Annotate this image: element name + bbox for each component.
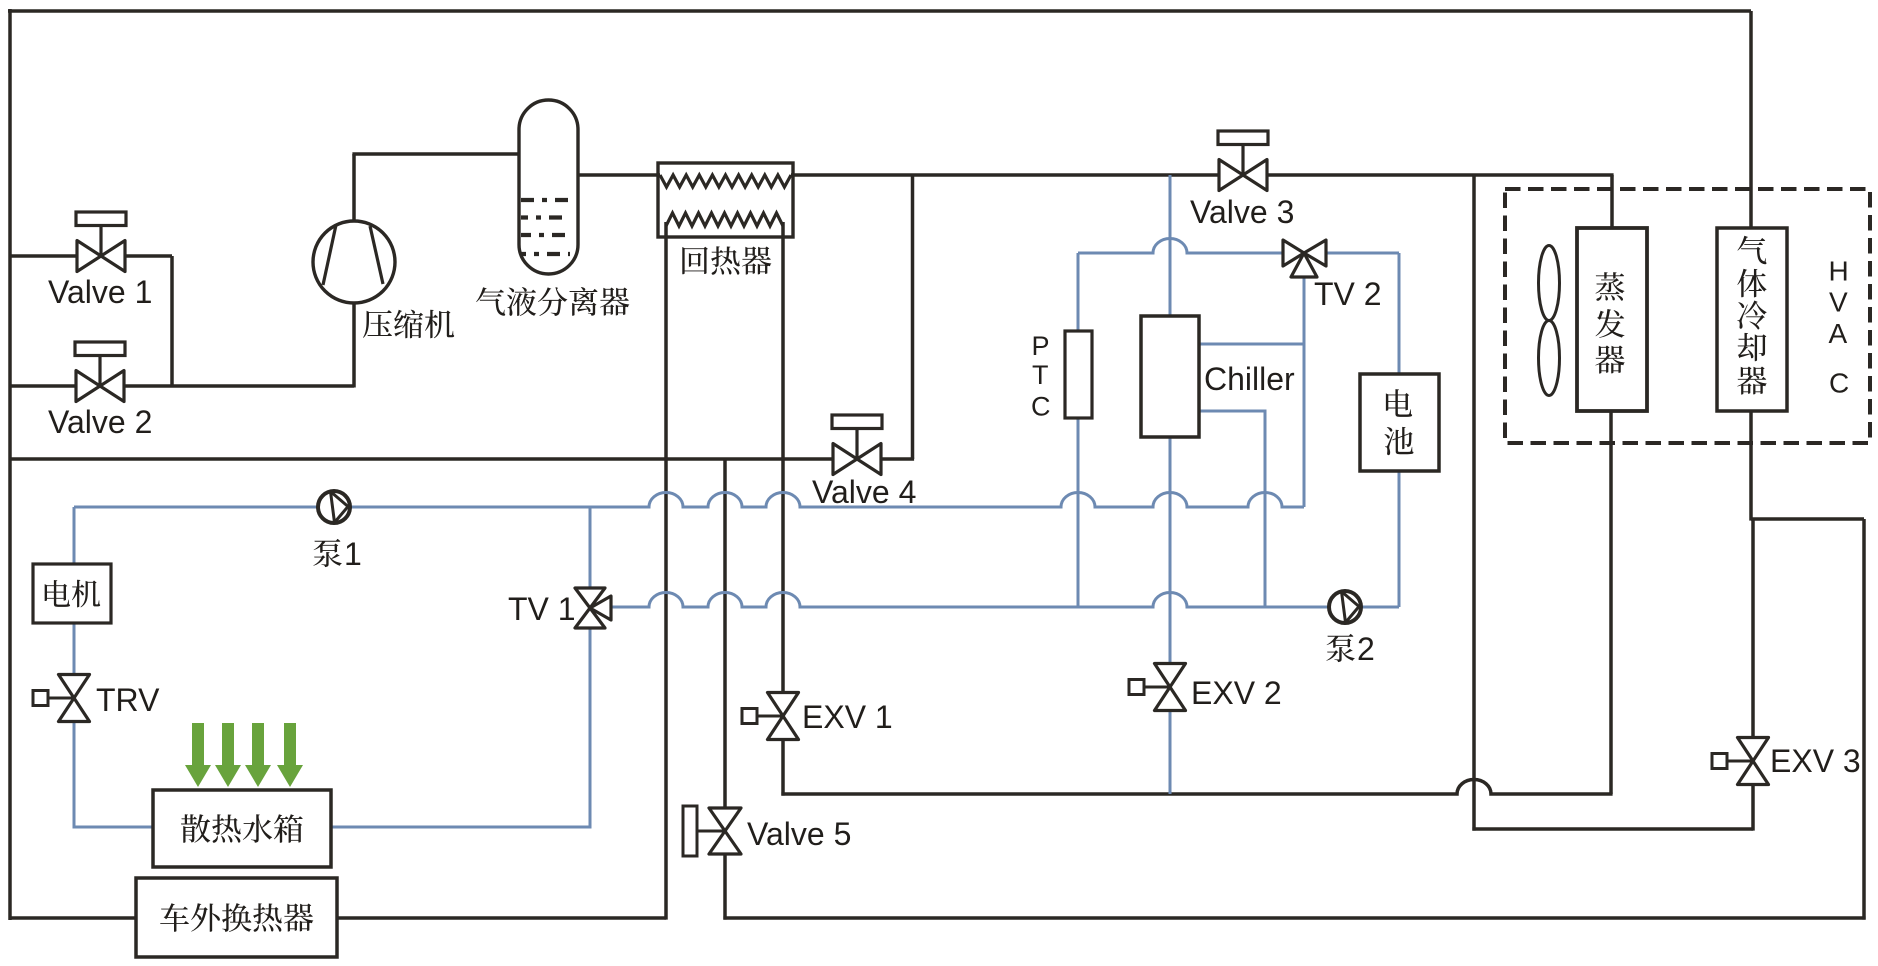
wire tank to TV1 riser xyxy=(331,507,590,827)
svg-text:H: H xyxy=(1829,256,1849,287)
svg-text:TV 1: TV 1 xyxy=(508,591,576,627)
svg-text:EXV 2: EXV 2 xyxy=(1191,675,1282,711)
radiator tank box xyxy=(153,790,331,867)
svg-text:EXV 3: EXV 3 xyxy=(1770,743,1861,779)
valve TRV xyxy=(48,697,74,700)
wire motor top stem xyxy=(73,507,76,565)
valve EXV 3 xyxy=(1727,760,1753,763)
label 泵2 xyxy=(1326,634,1354,662)
label 泵1 xyxy=(313,539,341,567)
HVAC fan blade top xyxy=(1539,246,1560,321)
wire battery outlet stem xyxy=(1398,470,1401,607)
svg-text:Valve 4: Valve 4 xyxy=(812,474,916,510)
svg-text:T: T xyxy=(1032,360,1049,390)
wire gas-cooler to right border xyxy=(1751,517,1864,521)
wire right border xyxy=(1862,519,1866,920)
svg-text:Valve 5: Valve 5 xyxy=(747,816,851,852)
wire chiller top stem xyxy=(1169,175,1172,317)
wire valve1 branch xyxy=(10,254,172,258)
HVAC dashed enclosure xyxy=(1505,189,1870,443)
wire PTC bottom stem xyxy=(1077,417,1080,607)
pump 泵2 xyxy=(1329,591,1361,623)
green heat arrows into radiator tank xyxy=(185,723,211,787)
wire valve1-valve2 link xyxy=(170,256,174,386)
wire recuperator left leg xyxy=(664,222,668,920)
chiller box xyxy=(1141,316,1199,437)
evaporator box xyxy=(1577,228,1647,411)
svg-text:V: V xyxy=(1829,287,1848,318)
wire EXV3 stem xyxy=(1751,519,1755,831)
svg-text:P: P xyxy=(1032,331,1050,361)
recuperator coil 1 xyxy=(660,175,791,187)
wire chiller right port 1 xyxy=(1199,343,1304,346)
svg-text:2: 2 xyxy=(1357,631,1375,667)
label 蒸发器 vertical xyxy=(1596,272,1625,301)
wire valve4 line xyxy=(10,457,914,461)
wire compressor discharge xyxy=(352,154,356,222)
valve Valve 1 xyxy=(76,212,126,226)
label 电机 xyxy=(45,580,70,607)
svg-text:Valve 3: Valve 3 xyxy=(1190,194,1294,230)
label 车外换热器 xyxy=(160,903,189,932)
wire HVAC return riser xyxy=(1472,175,1476,831)
svg-text:EXV 1: EXV 1 xyxy=(802,699,893,735)
wire EXV1 outlet line xyxy=(781,780,1612,795)
label 气体冷却器 vertical xyxy=(1737,236,1766,265)
valve Valve 2 xyxy=(75,342,125,356)
wire blue coolant line 1 (pump1 line) xyxy=(74,493,1304,507)
label 压缩机 xyxy=(363,310,392,338)
label 气液分离器 xyxy=(476,287,505,316)
PTC heater box xyxy=(1065,331,1092,418)
wire PTC top stem xyxy=(1077,253,1080,332)
wire battery inlet stem xyxy=(1398,253,1401,375)
svg-text:C: C xyxy=(1829,368,1849,399)
gas cooler box xyxy=(1717,228,1787,411)
wire recuperator bypass riser xyxy=(911,175,915,459)
wire gas-cooler top stem xyxy=(1749,11,1753,229)
wire separator-recuperator xyxy=(578,173,660,177)
wire evaporator inlet stem xyxy=(1610,175,1614,229)
HVAC fan blade bottom xyxy=(1539,321,1560,396)
wire bottom left line xyxy=(10,916,666,920)
valve Valve 4 xyxy=(832,415,882,429)
recuperator coil 2 xyxy=(666,213,783,226)
wire top border xyxy=(8,9,1751,13)
wire left border xyxy=(8,9,12,920)
wire gas-cooler outlet stem xyxy=(1749,411,1753,521)
battery box xyxy=(1360,374,1439,471)
wire evaporator outlet stem xyxy=(1609,411,1613,794)
motor box xyxy=(33,564,111,623)
pump 泵1 xyxy=(318,491,350,523)
wire compressor-separator xyxy=(352,152,519,156)
svg-text:Valve 1: Valve 1 xyxy=(48,274,152,310)
svg-text:C: C xyxy=(1031,392,1051,422)
svg-text:TV 2: TV 2 xyxy=(1314,276,1382,312)
wire bottom right line xyxy=(723,916,1865,920)
wire recuperator right leg / EXV1 leg xyxy=(781,222,785,796)
wire main top line xyxy=(791,173,1614,177)
wire TV2 stem xyxy=(1303,266,1306,507)
wire valve5 leg xyxy=(723,459,727,920)
wire blue coolant line 2 (TV1 branch) xyxy=(601,593,1399,608)
svg-text:Chiller: Chiller xyxy=(1204,361,1295,397)
external heat exchanger box xyxy=(136,878,337,957)
valve EXV 1 xyxy=(757,715,783,718)
valve TV 2 (3-way) xyxy=(1283,240,1304,266)
label 回热器 xyxy=(682,247,708,275)
valve EXV 2 xyxy=(1144,686,1170,689)
wire chiller right port 2 xyxy=(1199,411,1265,607)
svg-text:Valve 2: Valve 2 xyxy=(48,404,152,440)
wire compressor suction xyxy=(352,303,356,388)
label 散热水箱 xyxy=(181,814,210,843)
wire EXV3 bottom line xyxy=(1472,827,1753,831)
svg-text:1: 1 xyxy=(344,536,362,572)
wire chiller bottom stem / EXV2 leg xyxy=(1169,436,1172,794)
wire valve2 branch xyxy=(10,384,354,388)
label 电池 vertical xyxy=(1386,389,1412,417)
svg-text:TRV: TRV xyxy=(96,682,160,718)
valve TV 1 (3-way) xyxy=(575,588,605,608)
wire PTC-TV2-battery line xyxy=(1078,239,1399,253)
recuperator heat exchanger box xyxy=(658,163,793,237)
gas-liquid separator xyxy=(519,100,578,274)
valve Valve 5 xyxy=(683,806,697,856)
wire motor-TRV-tank line xyxy=(74,622,153,827)
svg-text:A: A xyxy=(1829,318,1848,349)
compressor xyxy=(313,221,395,303)
valve Valve 3 xyxy=(1218,131,1268,145)
